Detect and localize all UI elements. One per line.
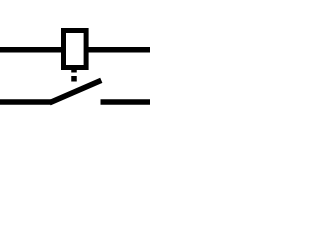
wire: contact to bottom-right: [101, 99, 151, 105]
switch contact arm (normally open): [50, 80, 102, 103]
wire: coil to top-right: [87, 47, 151, 53]
relay coil box K1: [64, 31, 87, 68]
wire: bottom-left to contact: [0, 99, 51, 105]
wire: top-left to coil: [0, 47, 63, 53]
mechanical link (dashed): [71, 67, 77, 82]
